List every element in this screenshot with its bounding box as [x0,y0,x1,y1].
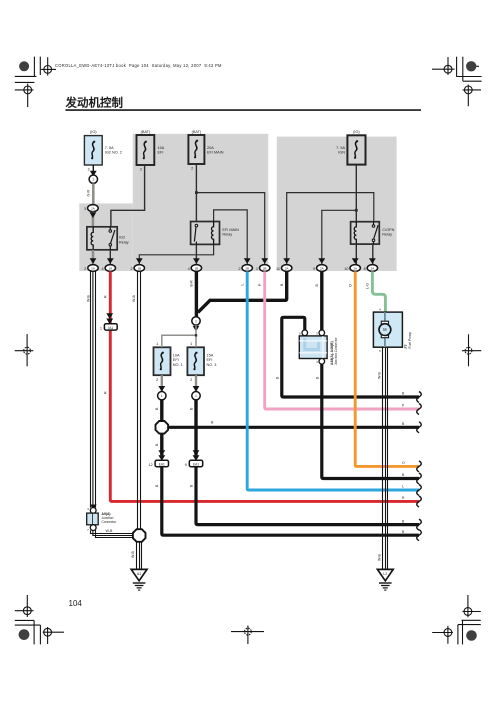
wire below fuse F6 [195,375,197,391]
wire B thick from oval 4(1B) down to connector circle [195,271,198,317]
svg-text:B: B [211,420,214,424]
connector box IA1 on red wire [106,313,113,319]
IG2 switch [109,230,112,233]
svg-text:(IG): (IG) [90,130,97,134]
svg-text:2B: 2B [263,266,267,270]
svg-text:9: 9 [313,267,315,271]
wire B from circle F6 down to EA2 [194,400,197,456]
svg-text:B: B [280,283,284,286]
wire EFI MAIN coil bottom to oval 2(1B) [139,244,213,264]
svg-text:B: B [402,392,405,396]
wire IG2 coil bottom to oval 2(1A) [92,250,95,265]
arrow into connector [90,171,97,177]
svg-text:4: 4 [316,360,318,364]
svg-text:1: 1 [256,267,258,271]
svg-text:B: B [155,443,159,446]
wire P pink from oval 1(2B) down then right to edge [265,271,419,409]
svg-text:10: 10 [344,267,348,271]
svg-text:B: B [155,484,159,487]
wire oval 11(2A) riser / C-OPN switch feed [287,193,374,265]
svg-text:IG2 NO. 2: IG2 NO. 2 [105,151,122,155]
wire B octagon to right edge [168,426,419,429]
svg-text:B: B [315,284,319,287]
IG2 coil [91,227,93,250]
arrows into EA2 [193,450,200,456]
svg-text:W-B: W-B [87,294,91,302]
svg-text:2A: 2A [371,266,375,270]
pin 3 [319,330,325,336]
wire B from oval 9 down to junction connector pin 3 [320,271,323,330]
svg-text:B: B [155,407,159,410]
wire B EA2 down then right to edge [196,467,419,525]
fuse F1 7.5A IG2 NO.2 [84,130,121,171]
svg-text:B: B [276,376,280,379]
svg-text:1: 1 [161,394,163,398]
svg-text:EA1: EA1 [159,462,165,466]
svg-text:L: L [241,284,245,286]
svg-text:2A: 2A [320,266,324,270]
svg-text:3: 3 [316,331,318,335]
title underline [66,109,422,111]
svg-text:G-R: G-R [86,190,90,197]
C/OPN switch [372,225,375,228]
gray block right [277,137,397,271]
fuse F2 15A EFI [137,130,165,171]
svg-text:P: P [402,404,405,408]
wire W-B from A9 to splice octagon [91,530,134,537]
svg-text:W-B: W-B [377,371,381,379]
wire EFI MAIN coil top to oval 2(2B) [214,210,248,265]
svg-text:R: R [402,496,405,500]
connector circle 1 (EFI fuse feed) [192,317,200,325]
wire branch to oval 1(2B) pink feed [196,193,264,265]
wire R red from oval 4(1A) down and right to edge [110,271,419,501]
svg-text:Relay: Relay [382,233,392,237]
svg-text:1B: 1B [137,266,141,270]
wire oval 9(2A) riser to F4 junction [322,210,357,264]
svg-text:7. 5A: 7. 5A [105,146,114,150]
svg-text:A1: A1 [137,572,141,576]
svg-text:20A: 20A [207,146,214,150]
ground A1 [131,569,147,590]
svg-text:2B: 2B [245,266,249,270]
svg-text:10A: 10A [173,353,180,357]
svg-text:2A: 2A [353,266,357,270]
wire F4 to C/OPN coil [355,165,357,222]
svg-text:1: 1 [195,319,197,323]
PRINT MARKS [15,57,482,645]
svg-text:1: 1 [156,342,158,346]
svg-text:W-B: W-B [132,294,136,302]
svg-text:M: M [383,327,387,332]
svg-text:7. 5A: 7. 5A [336,146,345,150]
connector circle 1 (below F5) [158,392,166,400]
svg-text:4: 4 [379,308,381,312]
pin 4 [319,359,325,365]
svg-text:W-B: W-B [377,553,381,561]
svg-text:15A: 15A [207,353,214,357]
svg-text:发动机控制: 发动机控制 [65,96,124,110]
junction connector A48: pin 4 wire down then right to edge [322,361,419,478]
connector box EA2 [189,460,202,466]
junction dot on F3 wire [195,191,198,194]
relay IG2: box [87,227,129,250]
connector oval 8 (2A) [367,265,377,272]
wire F3 to EFI MAIN switch [195,165,197,222]
relay C/OPN: box [351,222,395,245]
relay EFI MAIN: box [191,222,240,245]
svg-text:2: 2 [238,267,240,271]
svg-text:4: 4 [101,267,103,271]
wire from oval 11(2A) merging into B wire [198,271,287,312]
svg-text:B: B [189,484,193,487]
svg-text:P: P [258,283,262,286]
svg-text:2: 2 [84,267,86,271]
svg-text:COROLLA_EWD-AE74-13TJ.book Pa: COROLLA_EWD-AE74-13TJ.book Page 104 Satu… [55,63,222,68]
svg-text:IG2: IG2 [119,236,125,240]
svg-text:O: O [349,284,353,287]
connector oval 4 (1B) [191,265,201,272]
svg-text:B: B [402,530,405,534]
svg-text:3: 3 [84,207,86,211]
svg-text:NO. 1: NO. 1 [173,363,183,367]
wire EFI MAIN switch bottom to oval 4(1B) [195,244,197,264]
wire C/OPN coil bottom to oval 10(2A) [355,244,357,264]
connector oval 9 (2A) [317,265,327,272]
wire W from oval 2(1B) down to splice octagon [138,271,141,529]
svg-text:2A: 2A [285,266,289,270]
arrow into circle [193,386,200,392]
wire L-G green from oval 8 to fuel pump [372,271,385,312]
off-page wire labels [402,392,405,534]
junction connector A48: pin 6 wire up-left-down to edge [282,317,419,397]
wire oval3 to IG2 relay coil [92,212,95,228]
svg-text:R: R [104,295,108,298]
connector oval 2 (2B) [242,265,252,272]
svg-text:O: O [402,461,405,465]
wire C/OPN switch bottom to oval 8(2A) [372,244,374,264]
svg-text:B: B [402,519,405,523]
wire L cyan from oval 2(2B) down then right to edge [247,271,419,490]
wire below fuse F5 [161,375,163,391]
svg-text:4: 4 [188,267,190,271]
splice octagon node [156,421,169,434]
svg-text:1: 1 [195,394,197,398]
wire W-B from oval 2(1A) down to A9 junction [91,271,96,507]
svg-text:B: B [402,422,405,426]
svg-text:5: 5 [379,349,381,353]
svg-text:1: 1 [100,326,102,330]
fuse F3 20A EFI MAIN [188,130,223,170]
svg-text:EFI MAIN: EFI MAIN [222,228,239,232]
junction connector A48 box [299,330,338,365]
svg-text:EFI MAIN: EFI MAIN [207,151,224,155]
gray block left (relay block lower-left) [79,203,133,271]
svg-text:R: R [104,391,108,394]
svg-text:2: 2 [140,167,142,171]
ground (fuel pump) [377,569,393,590]
svg-text:EFI: EFI [173,358,179,362]
connector oval 1 (2B) [260,265,270,272]
svg-text:L2: L2 [383,572,387,576]
off-page wire end marks at right edge [417,392,422,541]
fuse F4 7.5A IGN [336,130,365,165]
svg-text:W-B: W-B [106,529,114,533]
svg-text:NO. 3: NO. 3 [207,363,217,367]
svg-text:B: B [402,473,405,477]
fuse F6 15A EFI NO.3 [187,342,216,382]
svg-text:IA1: IA1 [108,326,113,330]
svg-text:11: 11 [276,267,280,271]
connector oval 2 (1A) [88,265,98,272]
svg-text:2: 2 [88,167,90,171]
connector box EA1 [155,460,168,466]
svg-text:7: 7 [87,528,89,532]
splice octagon node (ground junction) [133,529,146,542]
svg-text:Fuel Pump: Fuel Pump [408,332,412,349]
svg-text:4: 4 [87,507,89,511]
svg-text:6: 6 [299,331,301,335]
svg-text:12: 12 [148,463,152,467]
EFI MAIN switch [195,224,198,227]
svg-text:Relay: Relay [119,240,129,244]
wire B from circle to splice octagon [160,400,163,421]
svg-text:Relay: Relay [222,233,232,237]
svg-text:W-B: W-B [131,550,135,558]
gray block center [133,134,268,271]
svg-text:Connector: Connector [102,520,118,524]
connector oval 4 (1A) [105,265,115,272]
svg-text:IGN: IGN [338,151,345,155]
arrow below connector circle [193,326,200,332]
wire F2 to IG2 switch [111,165,145,227]
svg-text:Junction Connector: Junction Connector [334,337,338,365]
connector circle 1 (below F6) [192,392,200,400]
connector oval 3 (1A) [88,205,99,212]
svg-text:B: B [189,407,193,410]
fuse F5 10A EFI NO.1 [154,342,183,382]
connector oval 2 (1B) [134,265,144,272]
svg-text:2: 2 [191,166,193,170]
connector oval 10 (2A) [350,265,360,272]
wire O orange from oval 10 down then right to edge [355,271,419,466]
svg-text:2: 2 [156,378,158,382]
svg-text:1B: 1B [195,266,199,270]
svg-text:B: B [315,376,319,379]
connector row arrows [90,258,376,264]
arrows into EA1 [158,450,165,456]
svg-text:9: 9 [185,463,187,467]
svg-text:C/OPN: C/OPN [382,228,394,232]
svg-text:15A: 15A [158,146,165,150]
wire B EA1 down then right to edge [162,467,419,536]
svg-text:2: 2 [190,378,192,382]
svg-text:EA1: EA1 [193,462,199,466]
wire fuse F1 to connector [92,165,94,175]
pin 6 [302,330,308,336]
svg-text:L: L [402,485,404,489]
svg-text:1A: 1A [91,207,95,211]
arrow below oval 3 [90,212,97,218]
svg-text:104: 104 [69,599,83,608]
wire circle to EFI fuses with branch [162,325,196,347]
connector circle 1 (below F1) [89,175,97,183]
svg-text:(IG): (IG) [353,130,360,134]
A9 junction connector [87,505,117,532]
svg-text:EFI: EFI [207,358,213,362]
wire W-B octagon to ground A1 [137,542,142,569]
svg-text:(BAT): (BAT) [141,130,151,134]
wire W-B fuel pump to ground [383,347,388,569]
svg-text:1: 1 [190,342,192,346]
junction dot on F4 wire [355,209,358,212]
svg-text:8: 8 [364,267,366,271]
svg-text:1: 1 [92,178,94,182]
svg-text:2: 2 [130,267,132,271]
svg-text:1A: 1A [108,266,112,270]
EFI MAIN coil [212,222,214,245]
connector oval 11 (2A) [282,265,292,272]
arrow into circle [158,386,165,392]
svg-text:(BAT): (BAT) [192,130,202,134]
fuel pump F7 [373,308,411,353]
wire B octagon down to EA1 [160,434,163,456]
wire G-R F1 to oval 3 [92,183,95,204]
wire IG2 switch bottom to oval 4(1A) [109,250,111,265]
C/OPN coil [354,222,356,245]
svg-text:1A: 1A [91,266,95,270]
svg-text:B-R: B-R [190,280,194,287]
svg-text:EFI: EFI [158,151,164,155]
svg-text:L-G: L-G [366,283,370,289]
